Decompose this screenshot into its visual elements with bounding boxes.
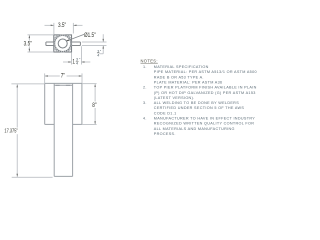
svg-text:4: 4 xyxy=(97,54,99,58)
svg-text:3.5": 3.5" xyxy=(58,22,66,29)
svg-text:RADE B OR A53 TYPE A.: RADE B OR A53 TYPE A. xyxy=(154,75,204,79)
svg-text:1: 1 xyxy=(72,59,75,66)
leader + label Ø1.5" xyxy=(66,34,84,41)
dimension 3.5" vertical (left) xyxy=(28,35,54,52)
svg-text:PLATE MATERIAL: PER ASTM A36: PLATE MATERIAL: PER ASTM A36 xyxy=(154,81,223,85)
svg-text:7": 7" xyxy=(61,73,65,80)
front view: plate 7x8 xyxy=(45,83,82,124)
svg-text:TOP PIER PLATFORM FINISH AVAIL: TOP PIER PLATFORM FINISH AVAILABLE IN PL… xyxy=(154,86,257,90)
svg-text:PIPE MATERIAL: PER ASTM A513/: PIPE MATERIAL: PER ASTM A513/1 OR ASTM A… xyxy=(154,70,257,74)
text 17.375" xyxy=(4,128,20,133)
front view: tube top cap line xyxy=(54,84,73,86)
svg-text:NOTES:: NOTES: xyxy=(141,58,158,63)
svg-text:17.375": 17.375" xyxy=(4,128,18,135)
svg-text:ALL WELDING TO BE DONE BY WELD: ALL WELDING TO BE DONE BY WELDERS xyxy=(154,101,239,105)
dimension 17.375" (front view left) xyxy=(11,84,52,177)
top view: corner weld marks xyxy=(54,36,71,52)
svg-text:": " xyxy=(100,50,102,54)
svg-text:MANUFACTURER TO HAVE IN EFFECT: MANUFACTURER TO HAVE IN EFFECT INDUSTRY xyxy=(154,117,255,121)
svg-text:ALL MATERIALS AND MANUFACTURIN: ALL MATERIALS AND MANUFACTURING xyxy=(154,127,235,131)
text 3/4" xyxy=(97,50,102,58)
svg-text:3.: 3. xyxy=(143,101,147,105)
notes block xyxy=(141,58,257,136)
svg-text:2.: 2. xyxy=(143,86,147,90)
svg-text:1.: 1. xyxy=(143,65,147,69)
front view: cap hidden hole ticks xyxy=(56,84,70,86)
svg-text:3.5": 3.5" xyxy=(24,41,32,48)
svg-text:MATERIAL SPECIFICATION: MATERIAL SPECIFICATION xyxy=(154,65,209,69)
svg-text:RECOGNIZED WRITTEN QUALITY CON: RECOGNIZED WRITTEN QUALITY CONTROL FOR xyxy=(154,122,255,126)
svg-text:8": 8" xyxy=(92,103,96,110)
svg-text:PROCESS.: PROCESS. xyxy=(154,132,176,136)
front view: tube body xyxy=(54,84,72,177)
svg-text:(LATEST VERSION).: (LATEST VERSION). xyxy=(154,96,195,100)
dimension 1-3/4" (below top view) xyxy=(63,46,90,64)
svg-text:": " xyxy=(79,58,81,62)
svg-text:CODE D1.1: CODE D1.1 xyxy=(154,111,177,115)
top view: flat bar left segment xyxy=(46,42,54,46)
top view: pipe outer circle (dashed ring) xyxy=(55,35,71,51)
svg-text:4.: 4. xyxy=(143,117,147,121)
svg-text:Ø1.5": Ø1.5" xyxy=(84,33,96,40)
svg-text:(P) OR HOT DIP GALVANIZED (G): (P) OR HOT DIP GALVANIZED (G) PER ASTM A… xyxy=(154,91,256,95)
top view: flat bar right segment xyxy=(72,42,81,46)
top view: square plate outline 3.5x3.5 xyxy=(54,35,72,52)
dimension 3/4" (top view right, bar thickness) xyxy=(82,34,107,54)
top view: pipe inner circle Ø1.5 xyxy=(58,39,67,48)
dimension 3.5" horizontal (top) xyxy=(45,23,83,35)
dimension 8" (front view right) xyxy=(82,84,97,125)
svg-text:4: 4 xyxy=(76,62,78,66)
svg-text:CERTIFIED UNDER SECTION 5 OF T: CERTIFIED UNDER SECTION 5 OF THE AWS xyxy=(154,106,245,110)
dimension 7" (front view plate width) xyxy=(45,73,82,83)
